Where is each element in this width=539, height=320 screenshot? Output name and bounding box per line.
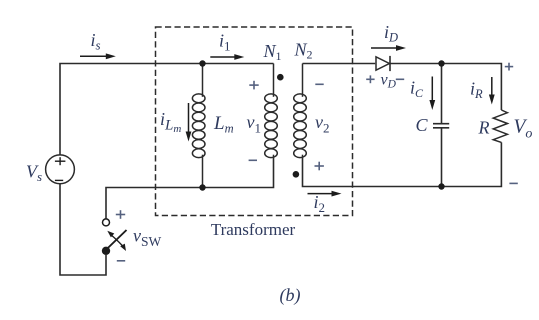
svg-text:C: C [416, 115, 429, 135]
svg-text:R: R [478, 118, 490, 138]
svg-text:Transformer: Transformer [211, 220, 296, 239]
svg-text:(b): (b) [280, 285, 301, 306]
